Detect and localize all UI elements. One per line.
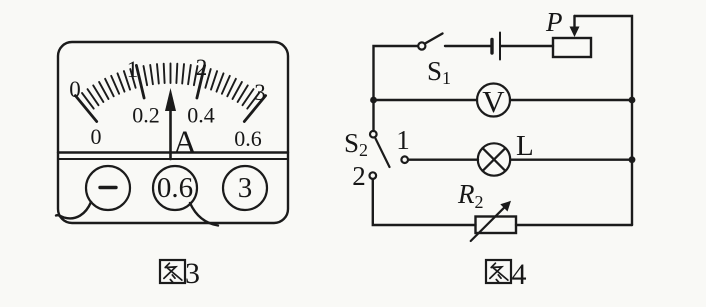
svg-text:1: 1 (396, 125, 410, 155)
svg-text:0.6: 0.6 (157, 172, 193, 204)
wire: slider to right rail (575, 16, 633, 225)
ammeter needle (165, 88, 176, 159)
svg-text:0.2: 0.2 (132, 103, 160, 128)
switch S1 (418, 34, 442, 50)
voltmeter V (477, 84, 510, 120)
svg-text:0: 0 (91, 124, 102, 149)
svg-text:V: V (482, 84, 505, 119)
switch S2 pivot (370, 131, 377, 138)
wire: switch to battery (445, 45, 491, 47)
svg-text:3: 3 (185, 257, 200, 290)
wire: voltmeter branch right (510, 99, 632, 101)
battery cell (492, 33, 500, 60)
svg-text:4: 4 (512, 258, 527, 291)
wire: bottom branch right (516, 224, 632, 226)
svg-text:3: 3 (238, 172, 253, 204)
caption 图4 (486, 258, 527, 291)
switch S2 lever (376, 139, 390, 168)
ammeter A (figure 3) meter body (58, 42, 288, 223)
wire: lamp branch right (511, 158, 633, 160)
svg-text:A: A (173, 125, 197, 161)
node: junction right of lamp (629, 156, 636, 163)
rheostat slider P arrow (570, 16, 580, 37)
ammeter negative terminal - (86, 166, 130, 210)
wire: left vertical (top section) (374, 46, 418, 131)
svg-text:S2: S2 (344, 128, 368, 160)
svg-text:0.4: 0.4 (187, 103, 215, 128)
wire: lamp branch left (409, 158, 479, 160)
ammeter terminal 0.6 (153, 166, 197, 210)
svg-text:S1: S1 (427, 56, 451, 88)
wire from terminal 0.6 (190, 203, 218, 226)
svg-text:1: 1 (127, 57, 139, 82)
ammeter terminal 3 (223, 166, 267, 210)
caption 图3 (160, 257, 200, 290)
rheostat R1 body (553, 38, 591, 57)
wire from negative terminal (56, 202, 91, 218)
svg-text:2: 2 (196, 55, 208, 80)
rheostat R2 body (476, 217, 517, 234)
switch S2 contact 2 (370, 172, 377, 179)
svg-text:3: 3 (254, 80, 266, 105)
ammeter scale plate divider (double line) (58, 151, 288, 153)
wire: battery to rheostat (501, 45, 553, 47)
svg-text:P: P (545, 7, 563, 37)
rheostat R2 arrow (471, 201, 511, 241)
svg-text:2: 2 (352, 161, 366, 191)
lamp L (478, 143, 510, 175)
switch S2 contact 1 (401, 156, 408, 163)
node: junction right of voltmeter (629, 97, 636, 104)
wire: voltmeter branch left (374, 99, 478, 101)
svg-text:0: 0 (69, 77, 81, 102)
svg-text:L: L (516, 130, 534, 162)
svg-text:R2: R2 (457, 179, 484, 212)
wire: contact 2 down and bottom branch left (373, 180, 476, 226)
svg-text:0.6: 0.6 (234, 126, 262, 151)
node: junction left of voltmeter (370, 97, 377, 104)
ammeter scale ticks (75, 64, 265, 122)
